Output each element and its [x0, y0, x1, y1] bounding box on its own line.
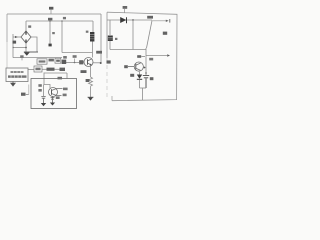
label node: [73, 55, 77, 58]
capacitor on emitter column: [143, 72, 149, 88]
capacitor leg 1: [41, 97, 45, 104]
dot rail left end: [13, 47, 14, 48]
regulator box: [107, 12, 177, 101]
diode D series: [120, 17, 126, 23]
component G: [60, 68, 66, 71]
wire second row left: [28, 69, 34, 71]
wire output terminal top: [152, 20, 166, 22]
wire cap branch lower: [109, 41, 111, 50]
leader 40 arrow: [26, 93, 29, 95]
capacitor branch C1: [49, 21, 51, 44]
wire top rail: [7, 13, 101, 15]
wire row mid: [66, 62, 79, 64]
label T2 top: [58, 77, 63, 80]
control box (temperature sensor): [6, 68, 28, 82]
wire zener leg bottom: [139, 80, 141, 88]
label DZ: [130, 74, 134, 77]
wire bottom join: [140, 87, 147, 89]
label 44 inside box edge: [107, 60, 111, 63]
capacitor C1 plate: [49, 44, 52, 47]
tick 26: [141, 56, 145, 58]
junction dot minus rail: [25, 47, 27, 49]
junction dot rail: [61, 20, 63, 22]
label RL: [163, 32, 167, 35]
component C diode: [62, 60, 67, 64]
junction dot top wire: [132, 19, 134, 21]
resistor F: [47, 68, 55, 71]
wire left edge: [6, 14, 8, 42]
tick on row line: [20, 55, 23, 58]
wire zener drop: [132, 20, 134, 50]
wire mid horizontal: [110, 49, 146, 51]
transistor T3: [128, 62, 143, 71]
junction dot row: [74, 62, 76, 64]
wire diagonal: [147, 21, 153, 49]
wire second rail: [26, 20, 93, 22]
ground zigzag bar: [88, 96, 94, 98]
wire zigzag branch bottom: [90, 86, 92, 97]
label T3 base: [124, 65, 128, 68]
terminal bar top: [169, 19, 171, 23]
leader 10: [50, 10, 52, 14]
junction dot T1 out: [100, 62, 102, 64]
ground under control box: [11, 82, 15, 86]
label 16: [86, 31, 89, 33]
junction dot C1: [49, 20, 51, 22]
label base tick lower: [38, 89, 41, 92]
wire bridge bottom lead: [25, 43, 27, 52]
label Iout: [147, 16, 153, 19]
tick stem: [21, 58, 23, 61]
wire bridge right lead: [31, 37, 37, 52]
ground leg 2: [50, 103, 55, 106]
arrow sense output: [167, 54, 170, 57]
wire bridge top lead: [25, 21, 27, 31]
emitter dot T3: [144, 67, 146, 69]
amplifier box: [31, 79, 77, 109]
bridge rectifier BR1: [21, 31, 31, 43]
stub line left of box: [28, 85, 30, 95]
wire mid link: [62, 52, 93, 54]
label under sense wire: [149, 58, 153, 61]
label T1 emitter: [81, 70, 87, 73]
ground triangle: [24, 52, 30, 55]
label 12: [13, 41, 17, 44]
capacitor leg 2: [51, 97, 55, 103]
label T2 right upper: [63, 88, 68, 91]
wire coil drop: [92, 21, 94, 32]
wire zigzag branch top: [90, 67, 92, 78]
transistor T1: [79, 58, 93, 67]
component B label: [49, 59, 54, 62]
wire second row right: [55, 68, 60, 70]
wire into box: [43, 73, 45, 85]
wire cap leg1: [43, 85, 45, 97]
wire negative rail: [13, 47, 26, 49]
label C tick: [115, 38, 117, 40]
wire T1 collector out: [93, 62, 101, 64]
zener diode DZ: [137, 75, 142, 80]
label 26: [137, 55, 141, 58]
leader VB: [124, 9, 126, 13]
ground zigzag branch: [88, 97, 93, 100]
inductor coil L: [90, 32, 94, 42]
label 40: [21, 93, 26, 96]
wire left edge lower: [6, 42, 8, 68]
component box row A: [37, 59, 47, 64]
wire row lower link: [44, 73, 67, 79]
resistor R zigzag: [89, 77, 93, 86]
wire base T2: [44, 85, 50, 89]
label 24: [86, 79, 90, 82]
emitter dot T1: [90, 64, 92, 66]
label 14: [48, 18, 52, 21]
wire node 20 drop: [61, 21, 63, 53]
arrow AC input: [15, 36, 18, 38]
wire down to box bottom: [142, 88, 144, 100]
wire row top: [34, 57, 62, 59]
tick node: [74, 59, 76, 63]
capacitor C: [108, 36, 113, 42]
label leg 2: [56, 96, 60, 99]
label C1: [52, 32, 55, 34]
component box E: [34, 66, 42, 72]
wire right drop: [100, 14, 102, 63]
label VB: [123, 6, 128, 9]
label base tick upper: [38, 84, 41, 87]
component box B2: [55, 58, 61, 63]
label 20: [63, 56, 67, 59]
regulator box left edge upper: [106, 12, 108, 58]
label node 62: [63, 17, 66, 19]
wire second row mid: [42, 68, 47, 70]
wire coil to T1: [92, 42, 94, 58]
ground leg 1: [41, 103, 46, 106]
transistor T2: [49, 88, 63, 97]
label 18: [28, 25, 31, 27]
arrow output terminal: [166, 20, 169, 22]
wire zener leg top: [139, 72, 141, 75]
label 10: [49, 7, 53, 10]
wire emitter column: [145, 48, 147, 72]
wire output top: [107, 19, 152, 21]
wire cap branch upper: [109, 20, 111, 35]
wire sense output: [146, 55, 167, 57]
notch bottom: [111, 96, 113, 101]
label 36: [150, 77, 154, 80]
wire bottom left: [13, 57, 34, 59]
ground bar below bridge: [24, 51, 38, 53]
component D: [79, 60, 83, 64]
wire AC lead to bridge: [13, 36, 21, 38]
regulator box left edge lower faint: [106, 58, 108, 100]
label 22: [96, 51, 102, 54]
wire AC source line: [12, 34, 14, 58]
label T2 right lower: [63, 94, 67, 97]
